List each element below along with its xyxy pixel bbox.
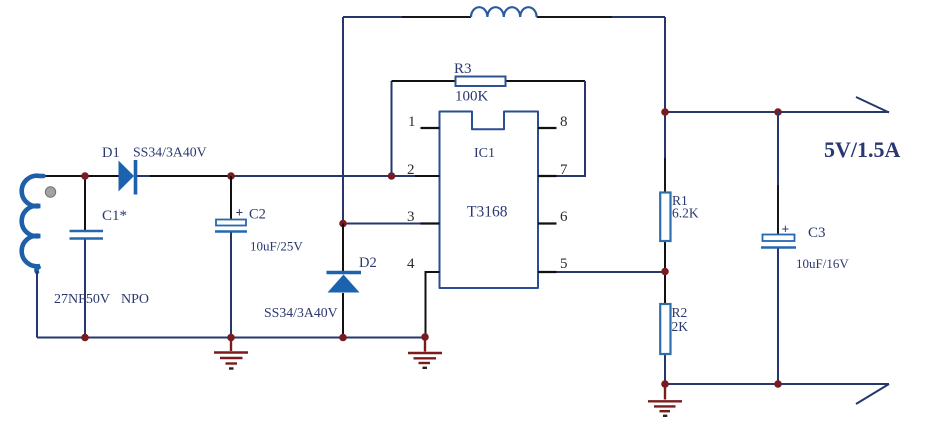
svg-text:IC1: IC1: [474, 146, 495, 161]
svg-text:6: 6: [560, 209, 568, 225]
ground symbol G2 (below pin4): [408, 337, 442, 368]
wire: bottom right ground rail: [665, 383, 889, 385]
wire: right vertical (top rail to R1): [664, 17, 666, 193]
pin 1 stub: [421, 127, 440, 129]
capacitor C1 plates: [70, 231, 104, 239]
capacitor C3 bottom plate: [761, 246, 796, 248]
wire: pin 4 net down to ground rail: [426, 272, 440, 338]
wire: top rail left dark segment: [402, 16, 471, 18]
wire: top rail left segment: [343, 16, 402, 18]
svg-text:C3: C3: [808, 225, 826, 241]
wire: segment D1 to C2 (dark): [150, 175, 230, 177]
svg-text:3: 3: [407, 209, 415, 225]
junction dot bottom rail / R2-ground: [661, 380, 669, 388]
junction dot bottom rail / C2-ground: [227, 334, 235, 342]
svg-text:C1*: C1*: [102, 208, 127, 224]
inductor coil L1 (left, 3 humps): [22, 176, 44, 272]
diode D2 lower lead: [342, 293, 344, 338]
svg-text:8: 8: [560, 114, 568, 130]
capacitor C3 top plate (box): [763, 235, 795, 242]
svg-text:7: 7: [560, 162, 568, 178]
output terminal arrow (bottom): [856, 384, 889, 404]
junction dot output/right-vertical: [661, 108, 669, 116]
pin 3 stub: [421, 222, 440, 224]
resistor R3 body: [456, 77, 506, 87]
wire: bottom-left ground rail: [37, 337, 425, 339]
wire: R3 right vertical down to pin7: [538, 81, 585, 176]
output terminal arrow (top): [856, 97, 889, 113]
svg-text:NPO: NPO: [121, 292, 149, 307]
svg-text:C2: C2: [249, 207, 266, 223]
svg-text:2: 2: [407, 162, 415, 178]
capacitor C2 lead upper (dark): [230, 176, 232, 220]
resistor R2 body: [660, 304, 670, 354]
svg-text:5: 5: [560, 256, 568, 272]
inductor L (top, 4 humps): [471, 7, 537, 17]
diode D2 cathode bar: [327, 271, 362, 275]
ground symbol G3 (below R2): [648, 384, 682, 416]
svg-text:+: +: [782, 222, 790, 237]
wire: top rail right navy segment: [612, 16, 665, 18]
svg-text:SS34/3A40V: SS34/3A40V: [133, 145, 207, 160]
wire: pin 3 net (to D2 top node): [343, 223, 440, 225]
junction dot bottom rail / D2: [339, 334, 347, 342]
svg-text:2K: 2K: [672, 319, 689, 334]
capacitor C2 top plate (box): [216, 220, 246, 226]
diode D2 anode lead (upper): [342, 224, 344, 272]
svg-text:10uF/25V: 10uF/25V: [250, 239, 303, 254]
svg-text:27NF50V: 27NF50V: [54, 292, 110, 307]
wire: left vertical from top rail to pin3 node: [342, 17, 344, 223]
wire: below R2 to ground rail: [664, 354, 666, 384]
junction dot node C1/main: [81, 172, 89, 180]
svg-text:10uF/16V: 10uF/16V: [796, 256, 849, 271]
wire: coil tail down to bottom rail: [36, 271, 38, 338]
wire: output rail: [665, 111, 889, 113]
junction dot node R3-left/pin2: [388, 172, 396, 180]
svg-text:SS34/3A40V: SS34/3A40V: [264, 305, 338, 320]
junction dot node C2/main: [227, 172, 235, 180]
junction dot bottom rail / C1: [81, 334, 89, 342]
pin 7 stub: [538, 175, 557, 177]
resistor R3 loop: left vertical: [391, 81, 393, 176]
capacitor C3 lead lower: [777, 249, 779, 385]
svg-text:100K: 100K: [455, 89, 489, 105]
svg-text:R2: R2: [672, 305, 688, 320]
diode D1 cathode bar: [134, 160, 138, 195]
wire: R3 top right: [506, 80, 586, 82]
junction dot output/C3: [774, 108, 782, 116]
svg-text:6.2K: 6.2K: [672, 206, 699, 221]
capacitor C2 lead lower: [230, 233, 232, 338]
pin 2 stub: [415, 175, 440, 177]
pin 5 stub: [538, 271, 557, 273]
capacitor C1 lead upper: [84, 176, 86, 230]
IC U1 body outline with top notch: [440, 112, 539, 289]
svg-text:D2: D2: [359, 255, 377, 271]
capacitor C3 lead upper dark segment: [777, 185, 779, 235]
wire: top rail right segment: [537, 16, 612, 18]
wire: pin 5 net to feedback node: [538, 271, 665, 273]
svg-text:D1: D1: [102, 145, 120, 161]
svg-text:4: 4: [407, 256, 415, 272]
junction dot bottom rail / C3: [774, 380, 782, 388]
pin 8 stub: [538, 127, 557, 129]
junction dot feedback node pin5/R1/R2: [661, 268, 669, 276]
svg-text:5V/1.5A: 5V/1.5A: [824, 137, 901, 162]
capacitor C3 lead upper: [777, 112, 779, 185]
polarity dot (grey) of coil: [45, 187, 55, 197]
wire: right vertical dark segment above R1: [664, 158, 666, 193]
svg-text:R3: R3: [454, 61, 472, 77]
diode D1 triangle: [119, 161, 135, 192]
wire: main input rail (D1 cathode to IC pin2): [137, 175, 440, 177]
wire: R3 top left: [392, 80, 456, 82]
ground symbol G1 (below C2): [214, 338, 248, 369]
junction dot bottom rail / pin4-ground: [421, 333, 429, 341]
junction dot node pin3/D2: [339, 220, 347, 228]
wire: main input rail (coil to D1 anode): [40, 175, 119, 177]
capacitor C2 bottom plate: [215, 230, 247, 232]
svg-text:1: 1: [408, 114, 416, 130]
capacitor C1 lead lower: [84, 240, 86, 338]
wire: between R1 and R2: [664, 241, 666, 304]
resistor R1 body: [660, 193, 670, 242]
pin 6 stub: [538, 222, 557, 224]
svg-text:T3168: T3168: [467, 204, 508, 221]
diode D2 triangle: [328, 275, 360, 293]
svg-text:+: +: [236, 205, 244, 220]
